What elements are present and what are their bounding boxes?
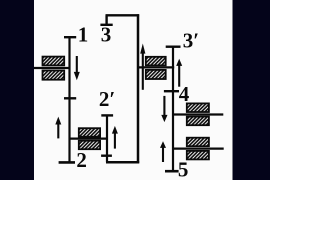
down arrow beside shaft 1 — [74, 56, 80, 80]
gear 2' bottom cap bar — [101, 154, 112, 156]
mesh line gear4-frame — [173, 113, 223, 115]
gear 1 (top cap bar) — [64, 36, 76, 38]
svg-text:1: 1 — [78, 23, 89, 47]
gear 3 stub — [105, 15, 107, 25]
up arrow beside bracket vertical — [140, 44, 145, 90]
gear 5 cap bar — [165, 170, 179, 173]
svg-text:4: 4 — [179, 82, 190, 106]
svg-text:3′: 3′ — [183, 28, 199, 52]
bracket top horizontal — [106, 14, 140, 16]
up arrow beside shaft 1 lower — [55, 117, 61, 139]
mesh 1 lower hatched gear section — [43, 71, 65, 80]
up arrow beside gear 5 — [160, 141, 166, 162]
mesh line gear2-gear2' — [70, 138, 108, 140]
down arrow beside gear 4 — [161, 96, 167, 122]
right letterbox bar — [233, 0, 271, 180]
up arrow beside gear 3' — [176, 59, 182, 87]
mesh 3 upper hatched gear section — [146, 57, 166, 66]
bracket bottom horizontal — [106, 161, 139, 164]
mesh 2 upper hatched gear section — [79, 128, 100, 137]
mesh 2 lower hatched gear section — [79, 141, 100, 150]
svg-text:2′: 2′ — [99, 87, 115, 111]
svg-text:2: 2 — [76, 148, 87, 172]
shaft 1-2 (left vertical shaft) — [68, 37, 70, 163]
left letterbox bar — [0, 0, 34, 180]
mesh line gear3shaft-gear3' — [138, 66, 174, 68]
svg-text:3: 3 — [101, 23, 112, 47]
mesh line gear1-frame — [26, 67, 70, 69]
shaft 3'-4-5 (right vertical shaft) — [172, 47, 174, 172]
mesh 4 lower hatched gear section — [187, 117, 209, 126]
gear cap mid shaft 1 — [64, 97, 76, 99]
mesh 5 lower hatched gear section — [187, 151, 209, 160]
mesh 4 upper hatched gear section — [187, 103, 209, 112]
gear 2' top cap bar — [101, 114, 113, 116]
shaft 2' — [106, 115, 108, 162]
gear 3' cap bar — [166, 46, 181, 48]
mesh 5 upper hatched gear section — [187, 138, 209, 147]
svg-text:5: 5 — [178, 158, 189, 180]
up arrow beside shaft 2' — [112, 126, 118, 149]
mesh 1 upper hatched gear section — [43, 57, 65, 66]
gear 4 cap bar — [164, 90, 179, 92]
bracket vertical (shaft 3 axis line) — [137, 14, 140, 163]
gear 3 cap bar — [100, 24, 112, 26]
mesh 3 lower hatched gear section — [146, 70, 166, 79]
gear 2 (bottom cap bar) — [59, 161, 75, 164]
mesh line gear5-frame — [173, 148, 223, 150]
